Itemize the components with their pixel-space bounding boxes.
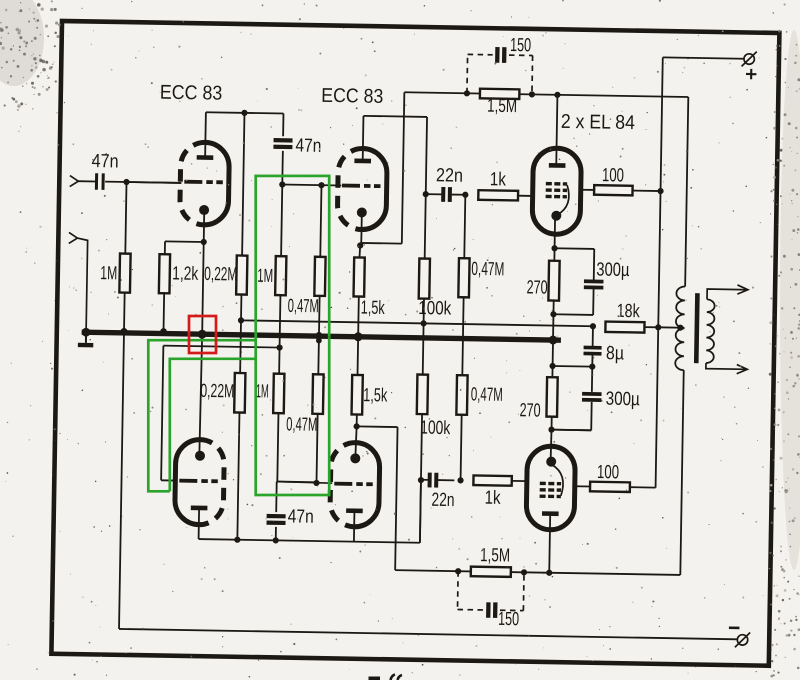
svg-text:22n: 22n xyxy=(436,165,463,186)
svg-text:47n: 47n xyxy=(295,135,321,156)
svg-text:47n: 47n xyxy=(91,151,118,172)
svg-text:300µ: 300µ xyxy=(596,259,629,281)
svg-text:ECC 83: ECC 83 xyxy=(321,85,383,108)
svg-text:150: 150 xyxy=(510,35,531,56)
svg-text:47n: 47n xyxy=(288,506,314,527)
svg-text:1,5k: 1,5k xyxy=(363,385,388,406)
svg-text:22n: 22n xyxy=(431,490,454,511)
svg-text:8µ: 8µ xyxy=(606,343,624,364)
svg-text:18k: 18k xyxy=(617,301,641,322)
svg-text:1,5M: 1,5M xyxy=(487,96,517,117)
svg-text:0,47M: 0,47M xyxy=(471,259,504,281)
svg-text:270: 270 xyxy=(519,400,540,421)
svg-text:1M: 1M xyxy=(257,266,273,287)
svg-text:1M: 1M xyxy=(100,263,117,284)
svg-text:1k: 1k xyxy=(484,488,501,509)
svg-text:100k: 100k xyxy=(420,418,451,440)
svg-text:1,5M: 1,5M xyxy=(480,545,510,566)
svg-text:270: 270 xyxy=(526,277,547,298)
svg-text:2 x EL 84: 2 x EL 84 xyxy=(561,111,635,134)
svg-text:1,5k: 1,5k xyxy=(361,298,386,319)
svg-text:100: 100 xyxy=(602,165,624,186)
svg-text:150: 150 xyxy=(498,609,519,630)
svg-text:1k: 1k xyxy=(490,169,507,190)
svg-text:0,22M: 0,22M xyxy=(204,264,237,286)
svg-text:0,22M: 0,22M xyxy=(200,381,234,403)
svg-text:100: 100 xyxy=(597,462,619,483)
svg-text:0,47M: 0,47M xyxy=(471,384,503,406)
svg-text:0,47M: 0,47M xyxy=(288,296,319,318)
svg-text:ECC 83: ECC 83 xyxy=(160,82,223,105)
svg-text:1M: 1M xyxy=(256,381,269,402)
svg-text:300µ: 300µ xyxy=(606,389,640,411)
svg-text:0,47M: 0,47M xyxy=(286,414,317,436)
svg-text:1,2k: 1,2k xyxy=(172,263,199,284)
